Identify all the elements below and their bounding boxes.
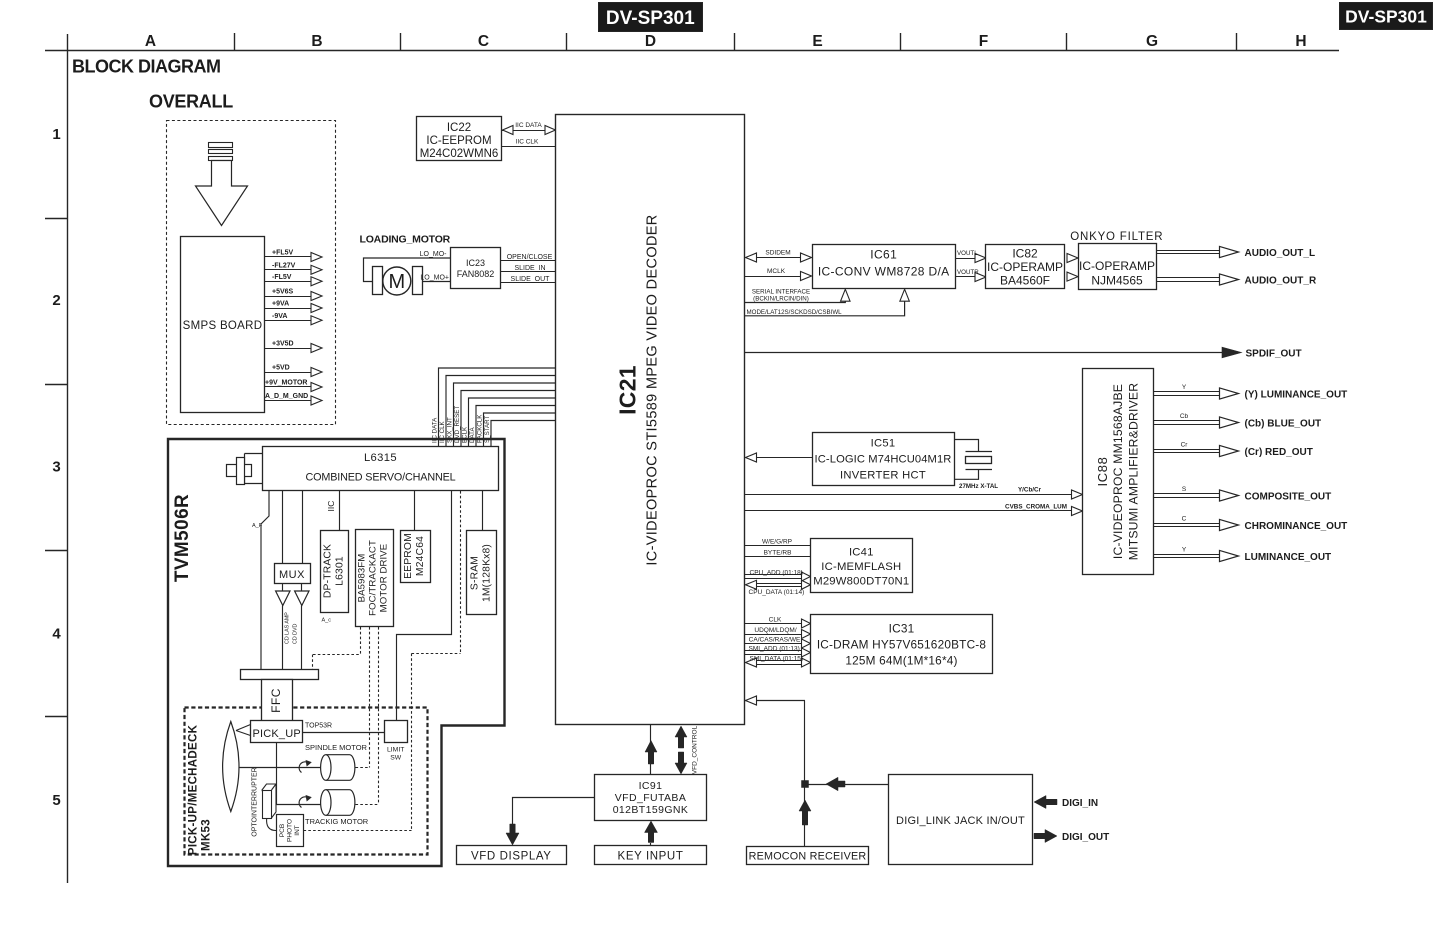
svg-text:PICK-UP/MECHADECK: PICK-UP/MECHADECK: [188, 724, 200, 855]
block IC91 VFD_FUTABA 012BT159GNK: [595, 775, 707, 821]
svg-text:CPU_ADD (01:18): CPU_ADD (01:18): [750, 569, 803, 576]
spindle motor symbol: [321, 755, 355, 781]
wire REMOCON RECEIVER to node: [799, 787, 811, 846]
svg-text:CHROMINANCE_OUT: CHROMINANCE_OUT: [1245, 521, 1348, 532]
block DIGI_LINK JACK IN/OUT: [889, 775, 1033, 865]
output AUDIO_OUT_L: [1156, 246, 1315, 259]
svg-text:W/E/G/RP: W/E/G/RP: [762, 538, 792, 545]
svg-text:Y/Cb/Cr: Y/Cb/Cr: [1018, 487, 1042, 494]
wire IC21 to IC91 (key scan): [645, 725, 657, 774]
svg-text:MK53: MK53: [201, 819, 213, 851]
labels CD LAS AMP / CD DVD: [285, 612, 299, 644]
svg-text:A: A: [145, 33, 156, 50]
bus CPU_ADD (01:18): [745, 569, 811, 581]
svg-text:L6315: L6315: [364, 452, 397, 464]
svg-text:CPU_DATA (01:14): CPU_DATA (01:14): [749, 589, 805, 596]
svg-text:-FL5V: -FL5V: [272, 274, 292, 281]
svg-text:OPEN/CLOSE: OPEN/CLOSE: [507, 254, 553, 261]
wire opto to tracking motor: [276, 804, 321, 806]
block PICK_UP: [251, 721, 303, 743]
block MUX: [275, 564, 311, 584]
svg-text:B: B: [311, 33, 322, 50]
svg-text:E: E: [812, 33, 822, 50]
AC input arrow symbol (bars): [209, 143, 233, 161]
svg-text:TVM506R: TVM506R: [172, 494, 193, 582]
svg-text:IC-OPERAMP: IC-OPERAMP: [1079, 259, 1155, 273]
svg-text:(Y) LUMINANCE_OUT: (Y) LUMINANCE_OUT: [1245, 390, 1348, 401]
svg-text:REMOCON RECEIVER: REMOCON RECEIVER: [749, 851, 867, 863]
output DIGI_OUT: [1034, 830, 1109, 844]
svg-text:SMPS BOARD: SMPS BOARD: [183, 320, 263, 332]
svg-text:VFD_CONTROL: VFD_CONTROL: [692, 725, 699, 774]
svg-text:H: H: [1295, 33, 1306, 50]
amplifier triangle (right): [295, 584, 309, 670]
signal BYTE/RB: [745, 549, 811, 556]
grid row labels 1-5: [52, 126, 61, 809]
signal CVBS_CROMA_LUM (IC21 to IC88): [745, 503, 1083, 515]
amplifier triangle (left): [276, 584, 290, 670]
svg-text:MUX: MUX: [279, 569, 305, 581]
block IC-OPERAMP NJM4565: [1079, 244, 1157, 290]
svg-text:IC-OPERAMP: IC-OPERAMP: [987, 260, 1063, 274]
signal VOUTL (IC61 to IC82): [956, 250, 987, 263]
svg-text:IC51: IC51: [871, 438, 896, 450]
svg-text:MITSUMI AMPLIFIER&DRIVER: MITSUMI AMPLIFIER&DRIVER: [1127, 383, 1141, 560]
SMPS output +FL5V: [264, 250, 322, 262]
block IC21 IC-VIDEOPROC STi5589 MPEG VIDEO DECODER: [556, 115, 745, 725]
svg-text:DV-SP301: DV-SP301: [1345, 7, 1427, 27]
block IC51 IC-LOGIC M74HCU04M1R INVERTER HCT: [813, 433, 955, 486]
block KEY INPUT: [595, 846, 707, 865]
svg-text:D: D: [645, 33, 656, 50]
junction node: [802, 781, 809, 788]
signal IC21 to IC51: [745, 453, 813, 462]
svg-text:BYTE/RB: BYTE/RB: [764, 549, 792, 556]
block IC82 IC-OPERAMP BA4560F: [986, 245, 1065, 289]
svg-text:CLK: CLK: [769, 616, 782, 623]
svg-text:ONKYO FILTER: ONKYO FILTER: [1070, 231, 1163, 243]
signal CA/CAS/RAS/WE: [745, 636, 811, 648]
svg-text:PCB: PCB: [279, 824, 286, 837]
svg-text:COMPOSITE_OUT: COMPOSITE_OUT: [1245, 492, 1332, 503]
signal MODE/LAT12S/SCKDSD/CSBIWL: [745, 289, 910, 316]
output SPDIF_OUT: [745, 347, 1302, 359]
signal CLK (IC21 to IC31): [745, 616, 811, 628]
svg-text:CD DVD: CD DVD: [293, 624, 299, 644]
svg-text:A_D_M_GND: A_D_M_GND: [265, 393, 308, 400]
svg-text:M24C64: M24C64: [415, 536, 426, 576]
signal VOUTR: [956, 269, 987, 282]
svg-text:KEY INPUT: KEY INPUT: [618, 851, 684, 863]
svg-text:S-RAM: S-RAM: [469, 556, 480, 590]
svg-text:OPTOINTERRUPTER: OPTOINTERRUPTER: [252, 767, 259, 837]
svg-text:DIGI_OUT: DIGI_OUT: [1062, 832, 1109, 843]
AC input arrow symbol (hollow down arrow): [196, 161, 248, 226]
title badge DV-SP301 (top right): [1340, 3, 1433, 30]
bus wire PACKCLK (L6315 to IC21): [476, 413, 555, 446]
wire L6315 to EEPROM: [414, 491, 416, 530]
wire LO_MO+ (motor to IC23): [420, 275, 450, 282]
svg-text:PHOTO: PHOTO: [287, 819, 294, 842]
svg-text:G: G: [1146, 33, 1158, 50]
svg-text:SPINDLE MOTOR: SPINDLE MOTOR: [305, 743, 368, 752]
svg-text:LO_MO-: LO_MO-: [420, 251, 448, 258]
loading motor M symbol: [373, 267, 423, 296]
svg-text:4: 4: [52, 626, 61, 643]
svg-text:FFC: FFC: [269, 688, 283, 713]
svg-text:(Cr) RED_OUT: (Cr) RED_OUT: [1245, 447, 1313, 458]
svg-text:IC91: IC91: [639, 780, 663, 792]
signal OPEN/CLOSE (IC23 to IC21): [501, 254, 556, 261]
SMPS output +5V6S: [264, 289, 322, 301]
dashed wire BA5983FM to tracking motor: [356, 627, 379, 805]
block IC88 IC-VIDEOPROC MM1568AJBE MITSUMI AMPLIFIER&DRIVER: [1083, 369, 1154, 575]
wire LO_MO- (motor to IC23): [364, 251, 451, 281]
output (Cb) BLUE_OUT: [1154, 413, 1322, 430]
SMPS output +3V5D: [264, 341, 322, 353]
svg-text:AUDIO_OUT_R: AUDIO_OUT_R: [1245, 276, 1317, 287]
svg-text:SDIDEM: SDIDEM: [765, 250, 790, 257]
block IC23 FAN8082 motor driver: [451, 248, 501, 289]
svg-text:EEPROM: EEPROM: [403, 533, 414, 579]
signal Y/Cb/Cr (IC21 to IC88): [745, 487, 1083, 500]
output (Cr) RED_OUT: [1154, 442, 1313, 459]
svg-text:IIC CLK: IIC CLK: [516, 138, 539, 145]
svg-text:1: 1: [52, 126, 60, 143]
svg-text:LO_MO+: LO_MO+: [420, 275, 449, 282]
svg-text:DVD_RESET: DVD_RESET: [454, 406, 461, 443]
svg-text:012BT159GNK: 012BT159GNK: [613, 804, 689, 816]
tracking motor symbol: [321, 790, 355, 816]
SMPS output -9VA: [264, 313, 322, 325]
svg-text:LUMINANCE_OUT: LUMINANCE_OUT: [1245, 552, 1332, 563]
svg-text:IC31: IC31: [889, 622, 915, 636]
signal SDIDEM (IC21-IC61): [745, 250, 812, 263]
svg-text:1M(128Kx8): 1M(128Kx8): [481, 544, 492, 602]
svg-text:5: 5: [52, 792, 60, 809]
wire pickup vertical: [276, 743, 278, 805]
svg-text:(Cb) BLUE_OUT: (Cb) BLUE_OUT: [1245, 419, 1322, 430]
FFC connector bar: [241, 670, 319, 680]
svg-text:A_F: A_F: [252, 523, 263, 529]
block L6315 COMBINED SERVO/CHANNEL: [263, 447, 499, 491]
svg-text:S: S: [1182, 486, 1187, 493]
signal SERIAL INTERFACE (BCKIN/LRCIN/DIN): [745, 288, 851, 302]
block LIMIT SW: [385, 721, 408, 762]
deck enclosure PICK-UP/MECHADECK MK53 (dashed): [185, 708, 428, 855]
svg-text:IC82: IC82: [1012, 247, 1038, 261]
SMPS output +9V_MOTOR: [264, 380, 322, 392]
svg-text:SMI_ADD (01:13): SMI_ADD (01:13): [749, 645, 800, 652]
svg-text:IIC: IIC: [326, 501, 336, 512]
bus wire IIC DATA (L6315 to IC21): [431, 368, 555, 446]
block SMPS BOARD: [181, 237, 265, 413]
bus wire BCLK (L6315 to IC21): [461, 398, 555, 446]
connector symbol (to L6315): [227, 454, 264, 485]
svg-text:3: 3: [52, 459, 60, 476]
svg-text:DP-TRACK: DP-TRACK: [323, 544, 334, 598]
svg-text:Y: Y: [1182, 547, 1187, 554]
svg-text:BLOCK DIAGRAM: BLOCK DIAGRAM: [72, 57, 221, 77]
optointerrupter 3D symbol: [262, 784, 276, 819]
svg-text:L6301: L6301: [335, 556, 346, 586]
svg-text:-9VA: -9VA: [272, 313, 287, 320]
svg-text:M29W800DT70N1: M29W800DT70N1: [813, 575, 909, 587]
svg-text:IC-VIDEOPROC STI5589 MPEG VIDE: IC-VIDEOPROC STI5589 MPEG VIDEO DECODER: [645, 214, 661, 565]
SMPS output +9VA: [264, 301, 322, 313]
grid column labels A-H: [145, 33, 1307, 50]
svg-text:-FL27V: -FL27V: [272, 262, 296, 269]
dashed wire BA5983FM pin to FFC: [313, 627, 361, 670]
svg-text:IC88: IC88: [1095, 457, 1110, 487]
svg-text:OVERALL: OVERALL: [149, 92, 233, 112]
block IC31 IC-DRAM HY57V651620BTC-8: [811, 615, 993, 674]
svg-text:+5V6S: +5V6S: [272, 289, 294, 296]
svg-text:BA4560F: BA4560F: [1000, 274, 1050, 288]
svg-text:IC61: IC61: [870, 248, 897, 262]
svg-text:BA5983FM: BA5983FM: [357, 554, 368, 603]
block S-RAM 1M(128Kx8): [467, 531, 497, 615]
svg-text:IIC DATA: IIC DATA: [515, 122, 542, 129]
svg-text:IC-LOGIC M74HCU04M1R: IC-LOGIC M74HCU04M1R: [815, 454, 952, 466]
svg-text:A_c: A_c: [322, 618, 332, 624]
svg-text:+9VA: +9VA: [272, 301, 289, 308]
wire IIC (L6315 to DP-TRACK): [326, 491, 340, 530]
output COMPOSITE_OUT: [1154, 486, 1332, 503]
block DP-TRACK L6301: [321, 531, 349, 613]
spindle rotation arrow: [299, 760, 311, 772]
arrow IC82 to NJM4565 (lower): [1067, 272, 1078, 281]
svg-text:C: C: [478, 33, 489, 50]
lens pointer lines: [236, 725, 251, 736]
wire VFD_CONTROL (bidirectional IC21-IC91): [675, 725, 699, 774]
block EEPROM M24C64: [401, 531, 431, 583]
svg-text:VOUTR: VOUTR: [957, 269, 979, 276]
svg-text:27MHz X-TAL: 27MHz X-TAL: [959, 483, 998, 490]
signal IIC DATA (IC22-IC21 bidirectional): [502, 122, 556, 135]
signal IIC CLK: [502, 138, 556, 146]
block BA5983FM FOC/TRACKACT MOTOR DRIVE: [356, 530, 394, 627]
power supply dashed enclosure: [167, 121, 336, 425]
svg-text:IC-VIDEOPROC MM1568AJBE: IC-VIDEOPROC MM1568AJBE: [1111, 384, 1125, 559]
bus SMI_ADD (01:13): [745, 645, 811, 657]
svg-text:MODE/LAT12S/SCKDSD/CSBIWL: MODE/LAT12S/SCKDSD/CSBIWL: [747, 309, 843, 316]
SMPS output +5VD: [264, 365, 322, 377]
signal MCLK: [745, 268, 812, 281]
bus wire SXX_INT (L6315 to IC21): [446, 383, 555, 446]
svg-text:SPDIF_OUT: SPDIF_OUT: [1246, 349, 1302, 360]
wire lens to spindle motor: [238, 767, 321, 769]
wire L6315 to MUX (right): [302, 491, 304, 564]
svg-text:M: M: [388, 271, 405, 293]
svg-text:FOC/TRACKACT: FOC/TRACKACT: [368, 540, 379, 616]
output (Y) LUMINANCE_OUT: [1154, 384, 1348, 401]
block REMOCON RECEIVER: [747, 847, 869, 865]
svg-text:IC-DRAM HY57V651620BTC-8: IC-DRAM HY57V651620BTC-8: [817, 638, 987, 652]
svg-text:IC23: IC23: [466, 258, 485, 268]
svg-text:NJM4565: NJM4565: [1091, 274, 1143, 288]
title badge DV-SP301 (top center): [599, 3, 703, 32]
svg-text:DV-SP301: DV-SP301: [606, 8, 695, 29]
svg-text:CVBS_CROMA_LUM: CVBS_CROMA_LUM: [1005, 503, 1067, 510]
svg-text:BCLK: BCLK: [461, 426, 468, 443]
svg-text:CD LAS AMP: CD LAS AMP: [285, 612, 291, 644]
signal SLIDE_OUT: [501, 276, 556, 283]
svg-text:LOADING_MOTOR: LOADING_MOTOR: [360, 234, 451, 246]
svg-text:+FL5V: +FL5V: [272, 250, 294, 257]
svg-text:IC-CONV WM8728 D/A: IC-CONV WM8728 D/A: [818, 265, 950, 279]
svg-text:PICK_UP: PICK_UP: [252, 728, 300, 740]
output AUDIO_OUT_R: [1156, 274, 1317, 287]
svg-text:LIMIT: LIMIT: [387, 747, 404, 754]
svg-text:2: 2: [52, 292, 60, 309]
svg-text:INVERTER HCT: INVERTER HCT: [840, 470, 926, 482]
svg-text:UDQM/LDQM/: UDQM/LDQM/: [754, 627, 796, 634]
tracking rotation arrow: [299, 795, 311, 807]
svg-text:IC-EEPROM: IC-EEPROM: [426, 135, 491, 147]
svg-text:DATA: DATA: [469, 427, 476, 443]
signal UDQM/LDQM/: [745, 627, 811, 639]
signal SLIDE_IN: [501, 265, 556, 272]
svg-text:DIGI_LINK JACK IN/OUT: DIGI_LINK JACK IN/OUT: [896, 815, 1025, 827]
wire IC91 to VFD DISPLAY: [506, 798, 595, 846]
svg-text:INT: INT: [294, 825, 301, 836]
svg-text:M24C02WMN6: M24C02WMN6: [420, 148, 499, 160]
svg-text:SLIDE_OUT: SLIDE_OUT: [511, 276, 551, 283]
svg-text:(BCKIN/LRCIN/DIN): (BCKIN/LRCIN/DIN): [753, 295, 809, 302]
svg-text:VOUTL: VOUTL: [957, 250, 978, 257]
bus wire DVD_RESET (L6315 to IC21): [454, 391, 556, 447]
svg-text:Cb: Cb: [1180, 413, 1189, 420]
svg-text:SW: SW: [390, 755, 402, 762]
SMPS output A_D_M_GND: [264, 393, 322, 405]
svg-text:IC41: IC41: [849, 546, 874, 558]
signal W/E/G/RP (IC21 to IC41): [745, 538, 811, 545]
bus wire DATA (L6315 to IC21): [469, 406, 556, 447]
crystal X1 27MHz circuit: [955, 440, 993, 480]
svg-text:+9V_MOTOR: +9V_MOTOR: [265, 380, 307, 387]
svg-text:VFD_FUTABA: VFD_FUTABA: [615, 792, 686, 804]
wire PICK_UP to LIMIT SW: [303, 732, 384, 734]
wire A_F (L6315 to pickup flex): [252, 491, 269, 670]
dashed wire L6315 to photo interrupter: [304, 491, 461, 831]
SMPS output -FL5V: [264, 274, 322, 286]
arrow IC82 to NJM4565 (upper): [1067, 254, 1078, 263]
svg-text:TOP53R: TOP53R: [305, 723, 332, 730]
svg-text:F: F: [979, 33, 988, 50]
grid column ticks: [235, 33, 1237, 51]
bus wire IIC CLK (L6315 to IC21): [439, 376, 556, 447]
wire L6315 to LIMIT SW: [397, 491, 452, 721]
svg-text:IC22: IC22: [447, 122, 471, 134]
wire KEY INPUT to IC91: [645, 821, 658, 846]
input DIGI_IN: [1034, 796, 1098, 810]
SMPS output -FL27V: [264, 262, 322, 274]
svg-text:FAN8082: FAN8082: [457, 269, 495, 279]
svg-text:AUDIO_OUT_L: AUDIO_OUT_L: [1245, 248, 1316, 259]
svg-text:IC-MEMFLASH: IC-MEMFLASH: [821, 561, 901, 573]
output LUMINANCE_OUT: [1154, 547, 1332, 564]
svg-text:MCLK: MCLK: [767, 268, 786, 275]
svg-text:Cr: Cr: [1181, 442, 1189, 449]
svg-text:TRACKIG MOTOR: TRACKIG MOTOR: [305, 817, 369, 826]
lens symbol: [223, 722, 239, 812]
svg-text:VFD DISPLAY: VFD DISPLAY: [471, 851, 552, 863]
svg-text:SERIAL INTERFACE: SERIAL INTERFACE: [752, 288, 810, 295]
board outline TVM506R: [168, 439, 505, 866]
output CHROMINANCE_OUT: [1154, 516, 1348, 533]
svg-text:SMI_DATA (01:15): SMI_DATA (01:15): [750, 655, 804, 662]
bus CPU_DATA (01:14) bidirectional: [746, 580, 811, 596]
block VFD DISPLAY: [457, 846, 567, 865]
svg-text:125M 64M(1M*16*4): 125M 64M(1M*16*4): [845, 654, 957, 668]
wire DIGI_LINK to node: [809, 777, 889, 791]
block FFC: [262, 680, 293, 722]
svg-text:DIGI_IN: DIGI_IN: [1062, 798, 1098, 809]
svg-text:MOTOR DRIVE: MOTOR DRIVE: [379, 544, 390, 613]
block IC61 IC-CONV WM8728 D/A: [813, 245, 956, 289]
svg-text:IC21: IC21: [615, 365, 641, 415]
dashed wire BA5983FM to spindle motor: [356, 627, 370, 768]
svg-text:+5VD: +5VD: [272, 365, 290, 372]
wire L6315 to MUX (left): [282, 491, 284, 564]
block IC22 IC-EEPROM M24C02WMN6: [417, 117, 502, 161]
svg-text:Y: Y: [1182, 384, 1187, 391]
svg-text:C: C: [1182, 516, 1187, 523]
block IC41 IC-MEMFLASH M29W800DT70N1: [811, 539, 913, 593]
svg-text:SLIDE_IN: SLIDE_IN: [514, 265, 545, 272]
bus wire S_START (L6315 to IC21): [484, 416, 556, 446]
wire L6315 to S-RAM: [482, 491, 484, 531]
wire IC21 to remote/digi node: [745, 696, 806, 781]
svg-text:CA/CAS/RAS/WE: CA/CAS/RAS/WE: [749, 636, 801, 643]
svg-text:+3V5D: +3V5D: [272, 341, 294, 348]
block PCB PHOTO INT: [267, 815, 304, 847]
bus SMI_DATA (01:15) bidirectional: [746, 655, 811, 667]
svg-text:COMBINED SERVO/CHANNEL: COMBINED SERVO/CHANNEL: [305, 472, 455, 484]
grid row ticks: [45, 219, 68, 717]
